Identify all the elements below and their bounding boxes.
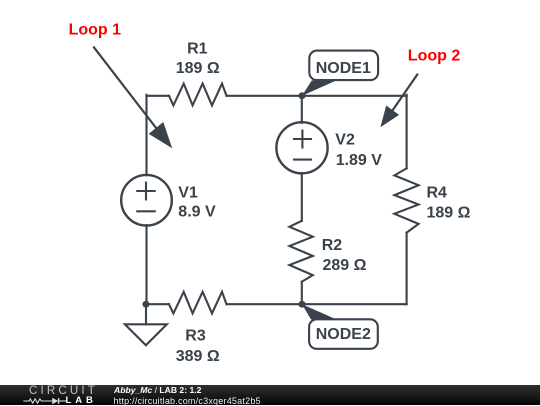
pointer beak NODE2	[302, 304, 337, 319]
svg-text:R2: R2	[322, 237, 343, 254]
svg-text:1.89 V: 1.89 V	[336, 152, 383, 169]
arrow line Loop 2	[393, 74, 418, 110]
svg-text:V1: V1	[178, 184, 198, 201]
svg-text:189 Ω: 189 Ω	[427, 205, 471, 222]
svg-text:NODE2: NODE2	[316, 326, 371, 343]
wire right vertical upper (corner to R4 top)	[406, 95, 408, 169]
ground	[125, 324, 167, 345]
wire V2 bottom to R2 top	[301, 173, 303, 221]
node label box NODE1	[309, 51, 378, 81]
svg-text:R4: R4	[427, 184, 448, 201]
svg-text:8.9 V: 8.9 V	[178, 203, 216, 220]
resistor R4	[394, 168, 418, 232]
svg-text:289 Ω: 289 Ω	[323, 257, 367, 274]
wire bottom-left to R3	[147, 303, 170, 305]
arrowhead Loop 2	[380, 106, 399, 128]
wire R3 to node NODE2 and to bottom-right corner	[227, 303, 407, 305]
svg-text:389 Ω: 389 Ω	[176, 348, 220, 365]
wire ground stub	[145, 304, 147, 324]
footer credit line	[114, 386, 201, 395]
footer bar	[0, 385, 540, 405]
wire right vertical lower (R4 bottom to bottom wire)	[406, 233, 408, 305]
resistor R2	[289, 221, 312, 282]
V2 plus sign	[294, 138, 311, 140]
svg-text:V2: V2	[335, 131, 355, 148]
svg-text:189 Ω: 189 Ω	[176, 60, 220, 77]
node label box NODE2	[309, 319, 378, 349]
resistor R1	[169, 84, 227, 106]
svg-text:R1: R1	[187, 40, 208, 57]
svg-text:Loop 1: Loop 1	[69, 21, 122, 38]
wire left vertical upper (corner to V1 top)	[145, 95, 147, 176]
voltage source V2 circle	[276, 122, 327, 173]
CircuitLab logo symbol (resistor + diode)	[21, 396, 71, 406]
V2 minus sign	[294, 159, 311, 161]
resistor R3	[169, 292, 227, 314]
node dot ground junction	[143, 301, 150, 308]
svg-text:Loop 2: Loop 2	[408, 48, 461, 65]
arrow line Loop 1	[94, 47, 157, 128]
svg-text:NODE1: NODE1	[316, 60, 371, 77]
node dot NODE1	[299, 92, 306, 99]
wire R1 to node NODE1 and to top-right corner	[227, 95, 407, 97]
wire node NODE1 down to V2 top	[301, 96, 303, 123]
V1 minus sign	[137, 210, 154, 212]
pointer beak NODE1	[302, 80, 337, 95]
CircuitLab logo wordmark	[29, 387, 98, 396]
wire left vertical lower (V1 bottom to bottom wire)	[145, 225, 147, 304]
svg-text:R3: R3	[185, 328, 206, 345]
wire top-left to R1	[147, 95, 170, 97]
V1 plus sign	[137, 190, 154, 192]
wire R2 bottom to node NODE2	[301, 282, 303, 305]
footer url line	[114, 397, 261, 406]
arrowhead Loop 1	[149, 122, 173, 148]
node dot NODE2	[299, 301, 306, 308]
voltage source V1 circle	[121, 175, 172, 226]
